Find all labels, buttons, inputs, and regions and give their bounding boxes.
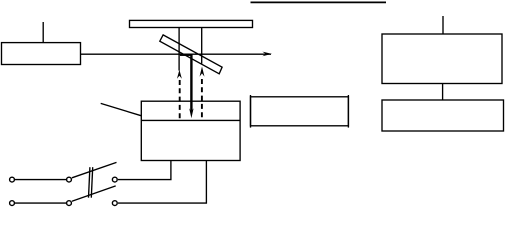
middle right box <box>251 97 349 126</box>
wire row2 left <box>15 202 66 204</box>
down arrowhead <box>189 108 193 118</box>
switch blade top <box>72 162 117 177</box>
right top box <box>382 34 502 84</box>
detector window line <box>141 119 240 121</box>
switch terminal circle B1 <box>10 201 15 206</box>
laser source box <box>2 43 81 65</box>
wire detector to switch row1 <box>118 161 171 180</box>
right bottom box <box>382 100 504 131</box>
switch terminal circle B2 <box>67 201 72 206</box>
detector box <box>141 101 240 160</box>
wire detector to switch row2 <box>118 161 206 204</box>
bold junction segment on beam line <box>180 54 192 56</box>
switch terminal circle B3 <box>112 201 117 206</box>
mirror bar <box>130 20 253 27</box>
up arrowhead right <box>200 67 205 77</box>
switch blade bottom <box>72 186 116 201</box>
leader line <box>101 103 142 115</box>
up arrowhead left <box>177 70 182 79</box>
dashed beam right <box>201 79 203 120</box>
switch terminal circle A2 <box>67 177 72 182</box>
beam line with arrow <box>81 53 272 55</box>
dashed beam left <box>179 80 181 120</box>
stub above right top box <box>442 16 444 34</box>
wire stub on source box <box>42 22 44 43</box>
arrowhead right <box>262 52 272 57</box>
gang link line 1 <box>89 167 90 198</box>
switch terminal circle A3 <box>112 177 117 182</box>
gang link line 2 <box>91 167 92 198</box>
beamsplitter slab <box>160 35 222 74</box>
title underline <box>251 1 387 3</box>
transmitted beam down <box>190 54 192 112</box>
wire row1 left <box>15 179 66 181</box>
wire from bar left <box>178 28 180 71</box>
switch terminal circle A1 <box>10 177 15 182</box>
connector between right boxes <box>442 84 444 101</box>
wire from bar right <box>201 28 203 64</box>
